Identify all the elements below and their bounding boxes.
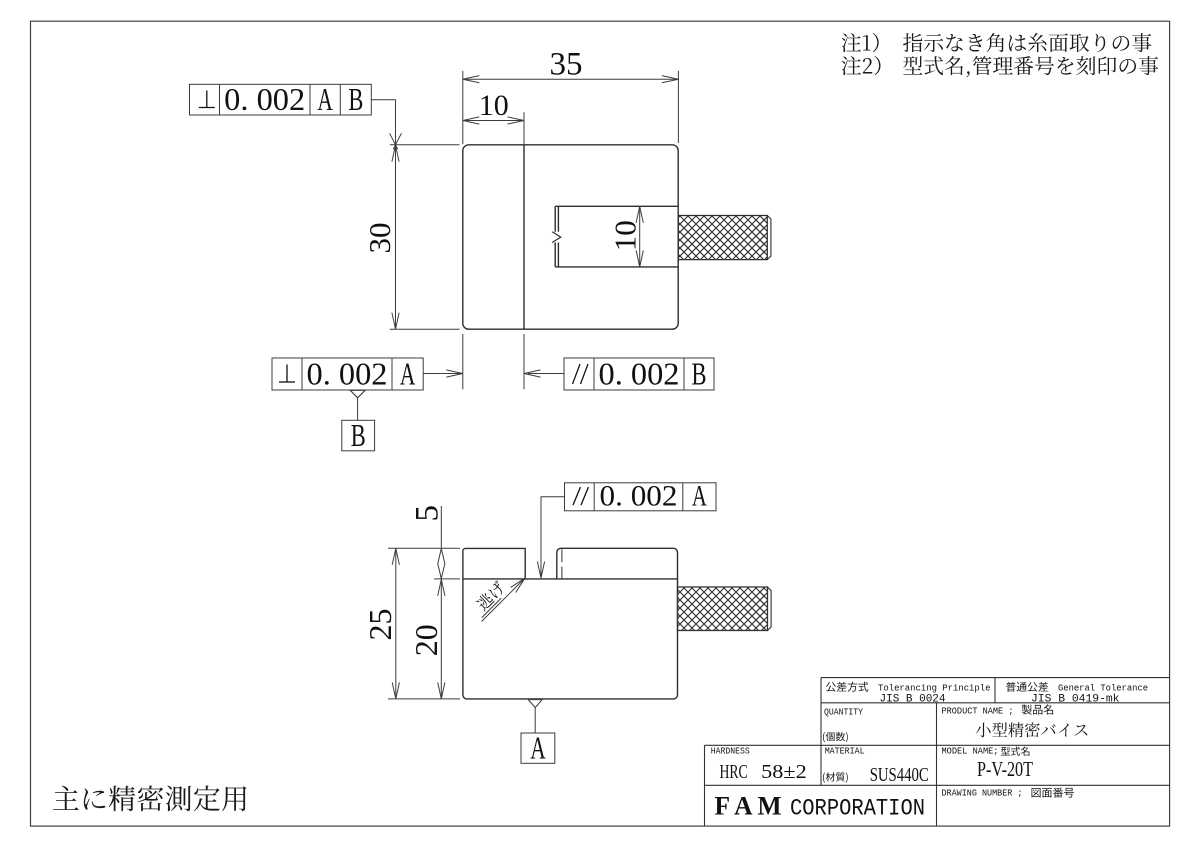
note 2 text part1 — [842, 56, 881, 75]
datum B: triangle — [350, 390, 365, 398]
tolerance frame //0.002A: box — [565, 483, 717, 511]
title block label (個数) — [823, 732, 848, 742]
dimension 35: extension lines — [462, 71, 464, 144]
svg-text:JIS B 0024: JIS B 0024 — [880, 694, 946, 706]
title block label 図面番号 — [1032, 788, 1075, 798]
tolerance frame ⊥0.002A: box — [272, 358, 423, 390]
dimension 20: dimension line — [440, 579, 442, 699]
title block: horizontal line row3 bottom — [705, 784, 1170, 786]
dimension 30: value text — [362, 223, 397, 254]
dimension 5: extension line above — [440, 506, 442, 548]
tolerance frame //0.002B: leader arrow — [528, 373, 564, 375]
svg-text:A: A — [530, 730, 546, 766]
note 1 text part2 — [903, 33, 1151, 52]
title block: vertical line left of hardness box — [704, 745, 706, 826]
knurl crosshatch (side view) — [678, 587, 768, 631]
svg-text:A: A — [692, 479, 707, 512]
movable jaw outline (side view) — [557, 548, 678, 579]
dimension 30: leader cross mark — [390, 133, 398, 149]
title block: vertical divider tolerance cells — [994, 678, 996, 703]
vise base with fixed jaw outline (side view) — [463, 548, 678, 699]
dimension 10: arrowheads — [463, 117, 480, 124]
svg-text:PRODUCT NAME ;: PRODUCT NAME ; — [942, 707, 1014, 717]
svg-text:F A M: F A M — [715, 791, 782, 821]
screw end cap (side view) — [768, 587, 772, 631]
dimension 30: bottom extension line — [390, 328, 460, 330]
knurl crosshatch (top view) — [678, 216, 767, 260]
svg-text:A: A — [400, 356, 416, 392]
svg-text:35: 35 — [550, 47, 583, 83]
svg-text:SUS440C: SUS440C — [870, 764, 929, 786]
title block label 普通公差 — [1006, 682, 1048, 692]
svg-text:Tolerancing Principle: Tolerancing Principle — [878, 683, 991, 694]
svg-text:QUANTITY: QUANTITY — [824, 707, 864, 717]
svg-text:58±2: 58±2 — [761, 761, 807, 783]
svg-text:20: 20 — [408, 624, 444, 656]
title block: vertical line left column — [820, 678, 822, 786]
tolerance frame //0.002B: box — [564, 358, 714, 390]
tolerance frame //0.002A: leader with arrow — [541, 497, 565, 577]
extension line below body (jaw face) — [523, 334, 525, 389]
svg-text:10: 10 — [479, 89, 509, 122]
knurled screw body (side view) — [678, 587, 768, 631]
slot left face inner line — [557, 206, 559, 231]
datum A: frame box — [521, 733, 555, 763]
dimension 35: arrowheads — [463, 76, 480, 83]
dimension 30: dimension line — [395, 145, 397, 329]
svg-text:30: 30 — [362, 223, 397, 254]
svg-text:P-V-20T: P-V-20T — [977, 757, 1033, 781]
title block label 公差方式 — [826, 682, 868, 692]
tolerance frame ⊥0.002AB: box — [190, 84, 372, 115]
dimension 35: dimension line — [463, 78, 679, 80]
dimension 10 (jaw width): extension line — [523, 112, 525, 145]
dimension 5: arrowheads (inside) — [438, 549, 445, 564]
dimension 25: arrowheads — [392, 548, 399, 565]
slot top edge (top view) — [555, 205, 678, 207]
title block label 型式名 — [1001, 747, 1029, 756]
datum A: leader — [534, 708, 536, 733]
relief (逃げ) leader arrow — [482, 579, 524, 621]
product name 小型精密バイス — [976, 722, 1087, 737]
datum A: triangle — [528, 700, 542, 708]
title block: horizontal line row1 bottom — [821, 702, 1170, 704]
svg-text:HARDNESS: HARDNESS — [711, 747, 750, 757]
dimension 10: dimension line — [463, 120, 524, 122]
datum B: frame box — [342, 420, 375, 451]
svg-text:B: B — [692, 356, 707, 392]
tolerance frame ⊥0.002A: perpendicular symbol — [286, 365, 288, 383]
slot left face outer line — [554, 206, 556, 231]
dimension 20: extension line — [434, 578, 460, 580]
tolerance frame ⊥0.002AB: perpendicular symbol — [206, 91, 208, 108]
extension line below body left — [462, 334, 464, 389]
fixed jaw bottom edge / base top surface line under jaw — [463, 578, 525, 580]
dimension 25: extension lines — [388, 547, 460, 549]
dimension 25: value text — [362, 609, 398, 641]
relief (逃げ) label — [475, 580, 507, 612]
dimension 30: arrowheads — [392, 145, 399, 162]
tolerance frame ⊥0.002AB: leader line — [371, 100, 395, 145]
title block: horizontal line row2 bottom — [705, 744, 1170, 746]
svg-text:A: A — [317, 81, 333, 117]
svg-text:0. 002: 0. 002 — [600, 479, 678, 512]
svg-text:DRAWING NUMBER ;: DRAWING NUMBER ; — [942, 789, 1023, 799]
dimension 10 (slot width): dimension line — [639, 206, 641, 267]
tolerance frame //0.002B: parallel symbol — [573, 364, 581, 384]
note 1 text part1 — [842, 33, 879, 52]
V notch on slot face — [552, 232, 561, 243]
svg-text:10: 10 — [608, 220, 643, 251]
title block label 製品名 — [1022, 704, 1053, 714]
dimension 10 (slot): arrowheads — [636, 206, 643, 223]
dimension 30: top extension line — [390, 144, 460, 146]
svg-text:5: 5 — [410, 505, 446, 522]
tolerance frame //0.002A: parallel symbol — [573, 487, 581, 505]
fixed jaw face line (top view) — [523, 145, 525, 329]
hidden edge (dashed) in movable jaw — [561, 549, 563, 578]
svg-text:MATERIAL: MATERIAL — [825, 747, 865, 757]
svg-text:B: B — [348, 81, 363, 117]
datum B: leader — [357, 398, 359, 421]
dimension 25: dimension line — [395, 548, 397, 699]
svg-text:CORPORATION: CORPORATION — [790, 796, 925, 822]
vise body outline (top view) — [463, 145, 678, 329]
dimension 10 (slot): value text — [608, 220, 643, 251]
screw end cap (top view) — [767, 216, 771, 260]
svg-text:25: 25 — [362, 609, 398, 641]
slot bottom edge (top view) — [555, 266, 678, 268]
svg-text:B: B — [351, 417, 366, 453]
title block label (材質) — [823, 772, 848, 782]
dimension 20: value text — [408, 624, 444, 656]
title block: horizontal line row1 top — [821, 677, 1170, 679]
usage note 主に精密測定用 — [53, 785, 246, 811]
svg-text:0. 002: 0. 002 — [307, 356, 388, 392]
note 2 text part2 — [903, 56, 1158, 77]
relief label underline — [482, 598, 502, 618]
svg-text:0. 002: 0. 002 — [224, 81, 305, 117]
svg-text:MODEL NAME;: MODEL NAME; — [942, 747, 999, 757]
svg-text:JIS B 0419-mk: JIS B 0419-mk — [1031, 694, 1120, 706]
title block: vertical line center column — [936, 703, 938, 826]
knurled screw body (top view) — [678, 216, 767, 260]
svg-text:HRC: HRC — [720, 761, 748, 783]
dimension 20: arrowheads — [438, 579, 445, 596]
svg-text:0. 002: 0. 002 — [599, 356, 680, 392]
tolerance frame ⊥0.002A: leader arrow to datum line — [423, 373, 461, 375]
svg-text:General Tolerance: General Tolerance — [1058, 683, 1148, 694]
dimension 5: value text — [410, 505, 446, 522]
